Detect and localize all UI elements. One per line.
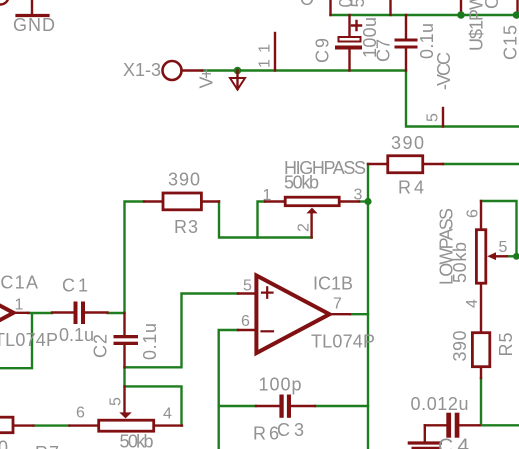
capacitor C3 stubs — [256, 405, 315, 407]
wire V+ rail from X1-3 to right, down at x406, right at y126.5 — [202, 71, 519, 127]
svg-text:5: 5 — [425, 113, 442, 122]
pin stub x330.5 top — [329, 0, 331, 15]
svg-text:5: 5 — [348, 0, 368, 8]
connector X1-3 pad circle — [163, 61, 182, 80]
wire C3 left lead — [219, 405, 256, 407]
capacitor C1 plates — [74, 302, 78, 325]
wire LOWPASS pin6 top loop — [481, 201, 517, 256]
svg-text:7: 7 — [333, 296, 342, 313]
wire top supply rail y15 — [331, 14, 519, 16]
svg-text:C7: C7 — [374, 39, 394, 62]
svg-text:C: C — [482, 0, 502, 9]
capacitor C2 stubs — [123, 313, 125, 367]
node junction dot LOWPASS wiper — [513, 253, 519, 260]
wire C3 right to vertical — [315, 405, 368, 407]
svg-text:5: 5 — [108, 397, 125, 406]
capacitor C2 plates — [114, 335, 139, 338]
svg-text:V+: V+ — [197, 69, 217, 89]
potentiometer R7 wiper arrow — [119, 412, 131, 418]
svg-text:TL074P: TL074P — [0, 330, 58, 350]
svg-text:0.012u: 0.012u — [411, 394, 469, 414]
svg-text:3: 3 — [354, 187, 363, 204]
node junction dot HP pin3 — [364, 198, 371, 205]
svg-text:X1-3: X1-3 — [123, 60, 161, 80]
svg-text:1: 1 — [15, 297, 24, 314]
resistor R4 — [388, 156, 423, 173]
svg-text:4: 4 — [163, 406, 172, 423]
pin stub C15 top — [516, 0, 518, 15]
svg-text:R7: R7 — [35, 443, 59, 449]
wire IC1B pin5 net — [125, 294, 239, 368]
svg-text:6: 6 — [76, 405, 85, 422]
potentiometer LOWPASS pin6 stub — [480, 201, 482, 229]
svg-text:0.1u: 0.1u — [59, 325, 94, 345]
svg-text:390: 390 — [391, 133, 424, 153]
svg-text:100p: 100p — [259, 375, 302, 395]
svg-text:R3: R3 — [174, 217, 198, 237]
wire R5 bottom to C4 net — [481, 378, 519, 425]
wire R4 right to edge — [443, 163, 519, 165]
potentiometer R7 body — [99, 420, 154, 431]
svg-text:50kb: 50kb — [120, 432, 154, 449]
wire IC1B pin6 net vertical x218.7 — [219, 330, 238, 449]
wire LOWPASS wiper to dot — [507, 255, 517, 257]
wire HP pot pin1 loop — [258, 202, 266, 238]
svg-text:O: O — [300, 0, 314, 9]
pin IC1A 1 output — [14, 312, 29, 314]
svg-text:C2: C2 — [91, 334, 111, 358]
svg-text:50kb: 50kb — [284, 173, 319, 193]
op-amp IC1B plus — [262, 287, 273, 297]
wire main vertical x367.5 from R4 to bottom — [367, 164, 369, 449]
ground symbol below C4 — [424, 425, 426, 441]
potentiometer R7 leads — [69, 424, 182, 426]
capacitor C3 plates — [279, 395, 283, 418]
pin X1-3 lead — [182, 69, 203, 71]
svg-text:TL074P: TL074P — [311, 332, 375, 352]
svg-text:6: 6 — [465, 209, 482, 218]
svg-text:GND: GND — [13, 15, 55, 35]
wire IC1A output net — [0, 313, 52, 368]
svg-text:6: 6 — [241, 313, 250, 330]
capacitor C9 bottom plate — [335, 46, 362, 50]
capacitor C7 plates — [395, 39, 418, 42]
svg-text:C15: C15 — [501, 25, 519, 60]
capacitor C1 stubs — [52, 311, 108, 313]
potentiometer LOWPASS body — [476, 230, 485, 284]
pin 11 stub — [274, 33, 276, 71]
pin stub x390.5 top — [389, 0, 391, 15]
resistor left partial at edge — [0, 417, 13, 433]
svg-text:1: 1 — [263, 187, 272, 204]
potentiometer HIGHPASS wiper arrow — [306, 208, 317, 214]
pin IC1B 6 — [238, 329, 256, 331]
svg-text:390: 390 — [450, 331, 470, 362]
pin IC1B 5 — [238, 292, 256, 294]
node junction dot V+ — [234, 67, 242, 75]
capacitor C4 leads — [425, 424, 480, 426]
capacitor C9 top plate — [339, 37, 361, 42]
supply symbol V+ down-arrow — [236, 71, 238, 90]
wire HP pin3 to junction — [359, 200, 368, 202]
svg-text:4: 4 — [464, 299, 481, 308]
svg-text:-VCC: -VCC — [434, 52, 454, 90]
pin IC1B 7 output — [330, 313, 351, 315]
wire IC1B pin7 to vertical — [350, 313, 368, 315]
svg-text:IC1A: IC1A — [0, 273, 38, 293]
pin 5 stub near y126 — [442, 108, 444, 127]
ground GND bar — [17, 14, 48, 17]
potentiometer HIGHPASS leads pin1 pin3 — [265, 200, 359, 202]
node junction dot U$1 — [457, 11, 465, 19]
svg-text:50kb: 50kb — [450, 242, 470, 283]
svg-text:IC1B: IC1B — [313, 274, 353, 294]
op-amp IC1B minus — [262, 330, 274, 332]
svg-text:R5: R5 — [496, 333, 516, 357]
connector arc top-left corner — [0, 0, 9, 5]
svg-text:2: 2 — [296, 223, 313, 232]
capacitor C9 bottom stem — [348, 50, 350, 71]
wire C2 bottom to R7 pot — [125, 367, 182, 425]
svg-text:390: 390 — [0, 437, 8, 449]
potentiometer HIGHPASS body — [285, 197, 339, 206]
capacitor C7 stems — [405, 15, 407, 71]
wire R3 left net vertical x124.5 — [108, 202, 145, 314]
ground GND symbol stem — [31, 0, 33, 14]
resistor R5 — [472, 333, 489, 367]
wire R3 right to HP wiper — [219, 202, 312, 238]
svg-text:C9: C9 — [313, 38, 333, 63]
op-amp IC1B triangle — [256, 276, 329, 354]
wire R7 pot pin6 — [34, 424, 70, 426]
svg-text:0.1u: 0.1u — [140, 323, 160, 360]
capacitor C9 top stem and plus — [348, 15, 350, 36]
svg-text:5: 5 — [243, 278, 252, 295]
resistor R3 — [163, 193, 201, 210]
node junction dot C15 — [513, 11, 519, 19]
potentiometer LOWPASS wiper arrow — [487, 252, 496, 260]
capacitor C4 plates — [446, 413, 451, 438]
svg-text:390: 390 — [168, 170, 200, 190]
svg-text:5: 5 — [499, 239, 508, 256]
op-amp IC1A triangle tip — [0, 274, 14, 352]
pin stub U$1 top — [460, 0, 462, 15]
